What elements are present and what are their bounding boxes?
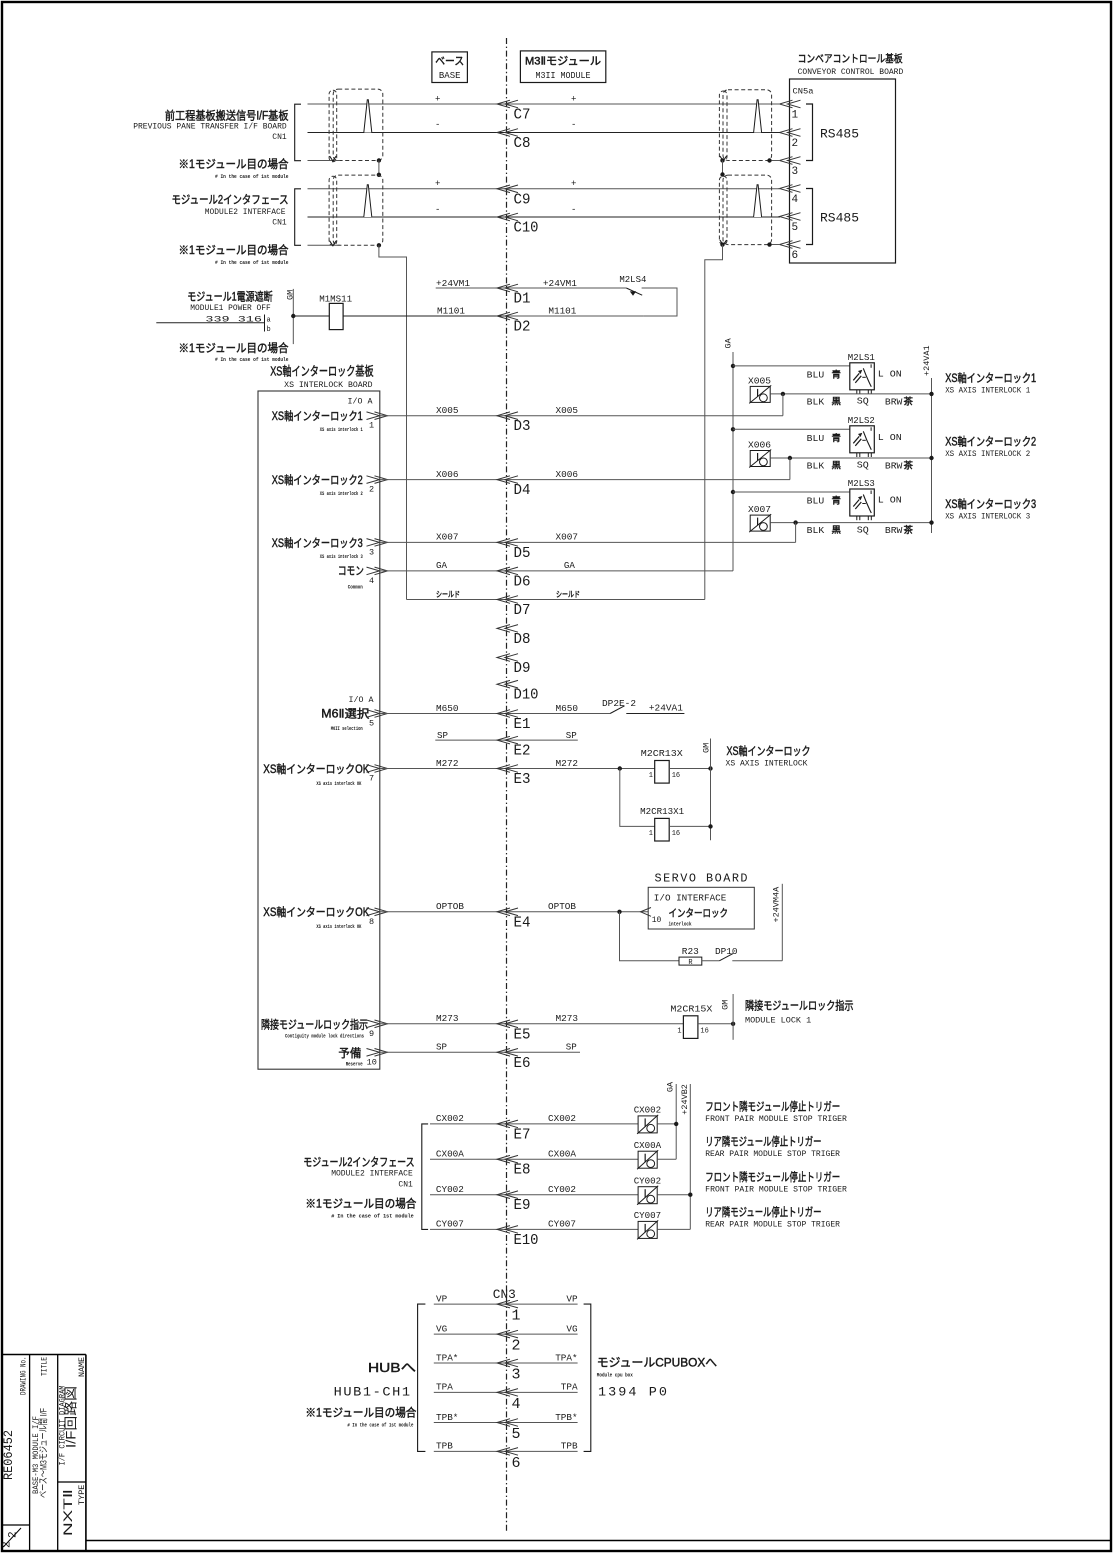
svg-text:DP2E-2: DP2E-2 [602, 698, 636, 709]
svg-text:3: 3 [512, 1367, 521, 1384]
RS485 bracket pins 4-6 [806, 189, 813, 245]
svg-text:VP: VP [436, 1293, 447, 1304]
svg-text:BRW: BRW [885, 397, 903, 407]
svg-text:青: 青 [832, 495, 842, 506]
svg-text:3: 3 [369, 547, 374, 557]
svg-text:D6: D6 [514, 573, 531, 590]
svg-text:+24VA1: +24VA1 [922, 345, 932, 376]
svg-text:a: a [267, 317, 271, 325]
svg-text:CY007: CY007 [548, 1219, 576, 1230]
svg-text:X005: X005 [436, 405, 459, 416]
svg-text:VG: VG [566, 1323, 577, 1334]
svg-text:E1: E1 [514, 716, 531, 733]
svg-text:RS485: RS485 [820, 127, 859, 142]
svg-text:予備: 予備 [338, 1046, 361, 1060]
svg-text:+24VM1: +24VM1 [436, 278, 470, 289]
svg-text:CX002: CX002 [634, 1105, 662, 1116]
svg-text:SQ: SQ [857, 524, 869, 535]
svg-text:# In the case of 1st module: # In the case of 1st module [215, 356, 289, 363]
svg-text:5: 5 [369, 719, 374, 729]
svg-text:D1: D1 [514, 291, 531, 308]
svg-text:黒: 黒 [832, 461, 842, 471]
svg-text:MODULE1 POWER OFF: MODULE1 POWER OFF [190, 304, 271, 313]
shield cable group2 right conveyor side [719, 176, 727, 244]
svg-text:DP10: DP10 [715, 946, 738, 957]
svg-text:GA: GA [564, 560, 575, 571]
svg-text:10: 10 [652, 916, 662, 925]
svg-text:TPA: TPA [561, 1382, 578, 1393]
svg-text:L ON: L ON [878, 432, 902, 443]
svg-text:D9: D9 [514, 660, 531, 677]
svg-text:16: 16 [700, 1027, 708, 1035]
svg-text:SP: SP [437, 730, 448, 741]
svg-text:X007: X007 [436, 532, 459, 543]
svg-text:X006: X006 [748, 440, 771, 451]
svg-text:茶: 茶 [904, 395, 914, 406]
svg-text:XS軸インターロック3: XS軸インターロック3 [272, 536, 363, 550]
svg-text:16: 16 [672, 830, 680, 838]
arrow D1 [497, 284, 518, 292]
CN5a pin 5 arrow [780, 213, 801, 221]
svg-text:+24VM4A: +24VM4A [772, 886, 782, 923]
svg-text:NXTⅡ: NXTⅡ [61, 1489, 75, 1536]
svg-text:M2LS3: M2LS3 [848, 478, 875, 489]
svg-text:I/O A: I/O A [348, 396, 374, 406]
svg-text:2: 2 [792, 138, 799, 150]
svg-text:XS INTERLOCK BOARD: XS INTERLOCK BOARD [284, 381, 372, 390]
svg-text:interlock: interlock [669, 921, 692, 928]
svg-text:XS axis interlock 3: XS axis interlock 3 [320, 553, 363, 560]
svg-text:REAR PAIR MODULE STOP TRIGER: REAR PAIR MODULE STOP TRIGER [705, 1150, 840, 1159]
svg-text:b: b [267, 326, 271, 334]
svg-text:CONVEYOR CONTROL BOARD: CONVEYOR CONTROL BOARD [798, 68, 904, 77]
svg-text:XS axis interlock OK: XS axis interlock OK [316, 780, 361, 787]
bracket group2 [295, 189, 301, 246]
svg-text:※1モジュール目の場合: ※1モジュール目の場合 [179, 243, 289, 257]
svg-text:X005: X005 [748, 375, 771, 386]
svg-text:ベース: ベース [435, 56, 464, 68]
svg-text:XS軸インターロックOK: XS軸インターロックOK [263, 762, 369, 776]
svg-text:Module cpu box: Module cpu box [597, 1372, 633, 1379]
svg-text:1: 1 [649, 830, 653, 838]
svg-text:BLK: BLK [807, 397, 825, 407]
arrow C10 [497, 213, 518, 221]
svg-text:XS軸インターロック2: XS軸インターロック2 [945, 434, 1036, 448]
svg-text:DRAWING No.: DRAWING No. [19, 1357, 29, 1396]
svg-text:M6II selection: M6II selection [331, 725, 363, 732]
svg-text:VG: VG [436, 1323, 447, 1334]
interlock row X007/M2LS3 [731, 490, 735, 494]
CN5a pin 4 arrow [780, 185, 801, 193]
svg-text:OPTOB: OPTOB [548, 901, 576, 912]
svg-text:BRW: BRW [885, 462, 903, 472]
svg-text:MODULE2 INTERFACE: MODULE2 INTERFACE [205, 208, 286, 217]
svg-text:※1モジュール目の場合: ※1モジュール目の場合 [179, 157, 289, 171]
svg-text:6: 6 [792, 250, 799, 262]
svg-text:シールド: シールド [436, 590, 460, 599]
svg-text:モジュールCPUBOXへ: モジュールCPUBOXへ [597, 1356, 717, 1370]
svg-text:# In the case of 1st module: # In the case of 1st module [215, 259, 289, 266]
svg-text:L ON: L ON [878, 368, 902, 379]
svg-text:コモン: コモン [338, 566, 364, 578]
svg-text:D7: D7 [514, 602, 531, 619]
svg-text:4: 4 [512, 1396, 521, 1413]
svg-text:1: 1 [677, 1027, 681, 1035]
spare arrow D9 [497, 654, 518, 662]
spare arrow D10 [497, 680, 518, 688]
svg-text:CX00A: CX00A [436, 1149, 464, 1160]
svg-text:# In the case of 1st module: # In the case of 1st module [215, 173, 289, 180]
svg-text:GA: GA [665, 1081, 675, 1092]
wire C10 - [308, 216, 507, 218]
svg-text:フロント隣モジュール停止トリガー: フロント隣モジュール停止トリガー [705, 1099, 840, 1113]
svg-text:M272: M272 [436, 758, 459, 769]
svg-text:D3: D3 [514, 418, 531, 435]
svg-text:9: 9 [369, 1029, 374, 1039]
CN5a pin 2 arrow [780, 129, 801, 137]
svg-text:CN1: CN1 [272, 133, 287, 142]
svg-text:CY002: CY002 [548, 1184, 576, 1195]
svg-text:8: 8 [369, 917, 374, 927]
svg-text:М3Ⅱモジュール: М3Ⅱモジュール [525, 56, 601, 68]
svg-text:青: 青 [832, 368, 842, 379]
svg-text:前工程基板搬送信号I/F基板: 前工程基板搬送信号I/F基板 [165, 109, 289, 123]
svg-text:TPA*: TPA* [555, 1352, 577, 1363]
svg-text:1: 1 [649, 772, 653, 780]
svg-text:茶: 茶 [904, 460, 914, 471]
svg-text:E4: E4 [514, 914, 531, 931]
svg-text:4: 4 [792, 194, 799, 206]
svg-text:BASE: BASE [439, 71, 461, 81]
arrow C9 [497, 185, 518, 193]
svg-text:3: 3 [792, 166, 799, 178]
svg-text:M2CR13X: M2CR13X [641, 748, 683, 759]
svg-text:XS AXIS INTERLOCK 2: XS AXIS INTERLOCK 2 [945, 450, 1030, 459]
svg-text:6: 6 [512, 1455, 521, 1472]
svg-text:M2LS2: M2LS2 [848, 415, 875, 426]
svg-text:CN1: CN1 [398, 1180, 413, 1189]
svg-text:CX00A: CX00A [548, 1149, 576, 1160]
shield drop to D7 row [379, 245, 407, 599]
svg-text:E10: E10 [514, 1232, 539, 1249]
svg-text:C10: C10 [514, 220, 539, 237]
svg-text:M650: M650 [436, 703, 459, 714]
svg-text:M1101: M1101 [548, 306, 576, 317]
svg-text:CY002: CY002 [634, 1175, 662, 1186]
svg-text:RE06452: RE06452 [1, 1430, 16, 1480]
arrow C7 [497, 100, 518, 108]
bracket group1 [295, 104, 301, 161]
svg-text:CN3: CN3 [493, 1287, 516, 1302]
svg-text:CX002: CX002 [548, 1113, 576, 1124]
svg-text:M1101: M1101 [437, 306, 465, 317]
CN5a pin 1 arrow [780, 100, 801, 108]
svg-text:+: + [435, 95, 440, 105]
svg-text:茶: 茶 [904, 524, 914, 535]
svg-text:BASE-M3 MODULE I/F: BASE-M3 MODULE I/F [32, 1416, 41, 1494]
svg-text:E2: E2 [514, 743, 531, 760]
shield cable group2 left [329, 176, 337, 245]
svg-text:TPB: TPB [561, 1441, 578, 1452]
svg-text:隣接モジュールロック指示: 隣接モジュールロック指示 [745, 999, 854, 1013]
svg-text:# In the case of 1st module: # In the case of 1st module [331, 1213, 414, 1220]
svg-text:SQ: SQ [857, 396, 869, 407]
svg-text:XS axis interlock 1: XS axis interlock 1 [320, 426, 363, 433]
base/module boundary dash-dot line [506, 38, 508, 1531]
svg-text:FRONT PAIR MODULE STOP TRIGER: FRONT PAIR MODULE STOP TRIGER [705, 1115, 847, 1124]
svg-text:XS軸インターロック基板: XS軸インターロック基板 [270, 365, 374, 379]
interlock row X005/M2LS1 [731, 364, 735, 368]
svg-text:BLU: BLU [807, 497, 825, 507]
svg-text:Contiguity module lock directi: Contiguity module lock directions [285, 1033, 364, 1040]
svg-text:C7: C7 [514, 107, 531, 124]
svg-text:X006: X006 [436, 469, 459, 480]
svg-text:-: - [435, 120, 440, 130]
svg-text:I/O A: I/O A [349, 695, 375, 705]
svg-text:+24VB2: +24VB2 [680, 1084, 690, 1115]
svg-text:TPB*: TPB* [436, 1412, 458, 1423]
svg-text:E7: E7 [514, 1126, 531, 1143]
svg-text:M3II MODULE: M3II MODULE [536, 71, 591, 81]
svg-text:XS軸インターロック1: XS軸インターロック1 [945, 371, 1036, 385]
svg-text:XS AXIS INTERLOCK: XS AXIS INTERLOCK [726, 760, 808, 769]
svg-text:2: 2 [8, 1531, 20, 1538]
svg-text:E8: E8 [514, 1162, 531, 1179]
svg-text:X007: X007 [556, 532, 579, 543]
svg-text:2: 2 [512, 1338, 521, 1355]
svg-text:+: + [435, 179, 440, 189]
svg-text:モジュール2インタフェース: モジュール2インタフェース [172, 194, 289, 207]
svg-text:CN5a: CN5a [793, 87, 814, 97]
svg-text:MODULE2 INTERFACE: MODULE2 INTERFACE [331, 1170, 413, 1179]
svg-text:BRW: BRW [885, 526, 903, 536]
svg-text:7: 7 [369, 774, 374, 784]
svg-text:CY007: CY007 [436, 1219, 464, 1230]
interlock row X006/M2LS2 [731, 427, 735, 431]
shield link group1-group2 [378, 161, 380, 175]
svg-text:4: 4 [369, 576, 374, 586]
svg-text:シールド: シールド [556, 590, 580, 599]
shield cable group1 right conveyor side [719, 91, 727, 161]
arrow C8 [497, 129, 518, 137]
svg-text:C8: C8 [514, 135, 531, 152]
CN5a pin 6 arrow [780, 241, 801, 249]
svg-text:GA: GA [724, 337, 734, 348]
svg-text:+24VA1: +24VA1 [649, 703, 683, 714]
svg-text:OPTOB: OPTOB [436, 901, 464, 912]
BASE label box [432, 52, 468, 83]
svg-text:CY007: CY007 [634, 1210, 662, 1221]
svg-text:10: 10 [367, 1057, 377, 1067]
svg-text:M2CR13X1: M2CR13X1 [640, 806, 684, 817]
svg-text:※1モジュール目の場合: ※1モジュール目の場合 [305, 1196, 416, 1210]
svg-text:D2: D2 [514, 319, 531, 336]
svg-text:X006: X006 [556, 469, 579, 480]
svg-text:M2LS1: M2LS1 [848, 352, 875, 363]
svg-text:HUBへ: HUBへ [368, 1360, 416, 1375]
svg-text:16: 16 [672, 772, 680, 780]
svg-text:+: + [571, 179, 576, 189]
svg-text:+: + [571, 95, 576, 105]
svg-text:XS axis interlock OK: XS axis interlock OK [316, 923, 361, 930]
svg-text:※1モジュール目の場合: ※1モジュール目の場合 [179, 341, 289, 355]
svg-text:コンベアコントロール基板: コンベアコントロール基板 [798, 52, 903, 65]
svg-text:※1モジュール目の場合: ※1モジュール目の場合 [305, 1406, 416, 1420]
svg-text:X007: X007 [748, 504, 771, 515]
svg-text:TPB*: TPB* [555, 1412, 577, 1423]
wire D2 M1101 [507, 315, 644, 317]
RS485 bracket pins 1-3 [806, 104, 813, 161]
svg-text:黒: 黒 [832, 525, 842, 535]
wire C8 - [308, 132, 507, 134]
svg-text:SERVO BOARD: SERVO BOARD [655, 872, 750, 886]
svg-text:R23: R23 [682, 946, 699, 957]
svg-text:VP: VP [566, 1293, 577, 1304]
svg-text:XS軸インターロック1: XS軸インターロック1 [272, 409, 363, 423]
svg-text:M1MS11: M1MS11 [319, 293, 352, 304]
svg-text:SP: SP [436, 1042, 447, 1053]
svg-text:D8: D8 [514, 631, 531, 648]
svg-text:+24VM1: +24VM1 [543, 278, 577, 289]
bracket CN3 right [584, 1304, 591, 1451]
svg-text:REAR PAIR MODULE STOP TRIGER: REAR PAIR MODULE STOP TRIGER [705, 1220, 840, 1229]
svg-text:リア隣モジュール停止トリガー: リア隣モジュール停止トリガー [705, 1205, 821, 1219]
svg-text:NAME: NAME [77, 1357, 87, 1377]
svg-text:青: 青 [832, 432, 842, 443]
svg-text:CY002: CY002 [436, 1184, 464, 1195]
svg-text:M273: M273 [436, 1013, 459, 1024]
svg-text:XS軸インターロック2: XS軸インターロック2 [272, 473, 363, 487]
svg-text:モジュール1電源遮断: モジュール1電源遮断 [187, 290, 273, 304]
svg-text:TPA: TPA [436, 1382, 453, 1393]
svg-text:BLK: BLK [807, 462, 825, 472]
svg-text:5: 5 [792, 222, 799, 234]
svg-text:M650: M650 [556, 703, 579, 714]
svg-text:BLK: BLK [807, 526, 825, 536]
svg-text:CN1: CN1 [272, 219, 287, 228]
shield row D7 [407, 599, 507, 601]
svg-text:CX00A: CX00A [634, 1140, 662, 1151]
shield cable group1 left [329, 90, 337, 161]
svg-text:D5: D5 [514, 545, 531, 562]
svg-text:HUB1-CH1: HUB1-CH1 [334, 1385, 412, 1400]
M3II MODULE label box [520, 51, 605, 83]
svg-text:PREVIOUS PANE TRANSFER I/F BOA: PREVIOUS PANE TRANSFER I/F BOARD [133, 123, 287, 132]
svg-text:インターロック: インターロック [669, 908, 729, 920]
svg-text:D10: D10 [514, 687, 539, 704]
svg-text:SP: SP [566, 730, 577, 741]
svg-text:М6Ⅱ選択: М6Ⅱ選択 [321, 707, 370, 721]
svg-text:リア隣モジュール停止トリガー: リア隣モジュール停止トリガー [705, 1135, 821, 1149]
shield drop conveyor to D7 row [705, 245, 723, 600]
svg-text:XS AXIS INTERLOCK 1: XS AXIS INTERLOCK 1 [945, 386, 1030, 395]
branch R23 DP10 [620, 912, 680, 961]
svg-text:TPB: TPB [436, 1441, 453, 1452]
svg-text:I/O INTERFACE: I/O INTERFACE [654, 893, 727, 904]
svg-text:TPA*: TPA* [436, 1352, 458, 1363]
svg-text:BLU: BLU [807, 434, 825, 444]
svg-text:GM: GM [721, 1000, 731, 1010]
svg-text:D4: D4 [514, 482, 531, 499]
svg-text:L ON: L ON [878, 495, 902, 506]
svg-text:XS AXIS INTERLOCK 3: XS AXIS INTERLOCK 3 [945, 513, 1030, 522]
svg-text:隣接モジュールロック指示: 隣接モジュールロック指示 [261, 1017, 368, 1031]
bracket CN3 left [418, 1304, 426, 1451]
svg-text:Common: Common [348, 584, 363, 591]
CN5a pin 3 arrow [780, 157, 801, 165]
svg-text:5: 5 [512, 1426, 521, 1443]
wire C9 + [308, 188, 507, 190]
svg-text:FRONT PAIR MODULE STOP TRIGER: FRONT PAIR MODULE STOP TRIGER [705, 1186, 847, 1195]
svg-text:-: - [435, 205, 440, 215]
svg-text:MODULE LOCK 1: MODULE LOCK 1 [745, 1016, 811, 1025]
wire C7 + [308, 103, 507, 105]
svg-text:XS軸インターロックOK: XS軸インターロックOK [263, 905, 369, 919]
svg-text:1: 1 [512, 1308, 521, 1325]
svg-text:-: - [571, 205, 576, 215]
branch to relay M2CR13X1 [620, 769, 655, 827]
svg-text:M273: M273 [556, 1013, 579, 1024]
svg-text:GA: GA [436, 560, 447, 571]
svg-text:CX002: CX002 [436, 1113, 464, 1124]
spare arrow D8 [497, 625, 518, 633]
svg-text:XS軸インターロック3: XS軸インターロック3 [945, 497, 1036, 511]
svg-text:# In the case of 1st module: # In the case of 1st module [347, 1422, 413, 1429]
svg-text:1: 1 [792, 110, 799, 122]
svg-text:1394 P0: 1394 P0 [598, 1385, 669, 1400]
svg-text:XS軸インターロック: XS軸インターロック [727, 744, 811, 758]
svg-text:1: 1 [369, 421, 374, 431]
svg-text:モジュール2インタフェース: モジュール2インタフェース [303, 1156, 414, 1169]
svg-text:M2CR15X: M2CR15X [670, 1003, 712, 1014]
svg-text:E9: E9 [514, 1197, 531, 1214]
bracket E7-E10 [422, 1124, 428, 1230]
svg-text:E3: E3 [514, 771, 531, 788]
svg-text:XS axis interlock 2: XS axis interlock 2 [320, 490, 363, 497]
svg-text:M272: M272 [556, 758, 579, 769]
svg-text:M2LS4: M2LS4 [619, 274, 646, 285]
svg-text:フロント隣モジュール停止トリガー: フロント隣モジュール停止トリガー [705, 1170, 840, 1184]
svg-text:BLU: BLU [807, 370, 825, 380]
svg-text:X005: X005 [556, 405, 579, 416]
svg-text:-: - [571, 120, 576, 130]
svg-text:I/F CIRCUIT DIAGRAM: I/F CIRCUIT DIAGRAM [58, 1386, 68, 1466]
svg-text:RS485: RS485 [820, 211, 859, 226]
svg-text:TYPE: TYPE [77, 1485, 87, 1505]
svg-text:2: 2 [369, 485, 374, 495]
svg-text:TITLE: TITLE [40, 1357, 50, 1376]
svg-text:黒: 黒 [832, 396, 842, 406]
svg-text:E6: E6 [514, 1055, 531, 1072]
svg-text:C9: C9 [514, 192, 531, 209]
svg-text:SQ: SQ [857, 460, 869, 471]
arrow D2 [497, 312, 518, 320]
svg-text:SP: SP [566, 1042, 577, 1053]
svg-text:E5: E5 [514, 1026, 531, 1043]
svg-text:Reserve: Reserve [346, 1061, 363, 1068]
title block [2, 1354, 86, 1356]
